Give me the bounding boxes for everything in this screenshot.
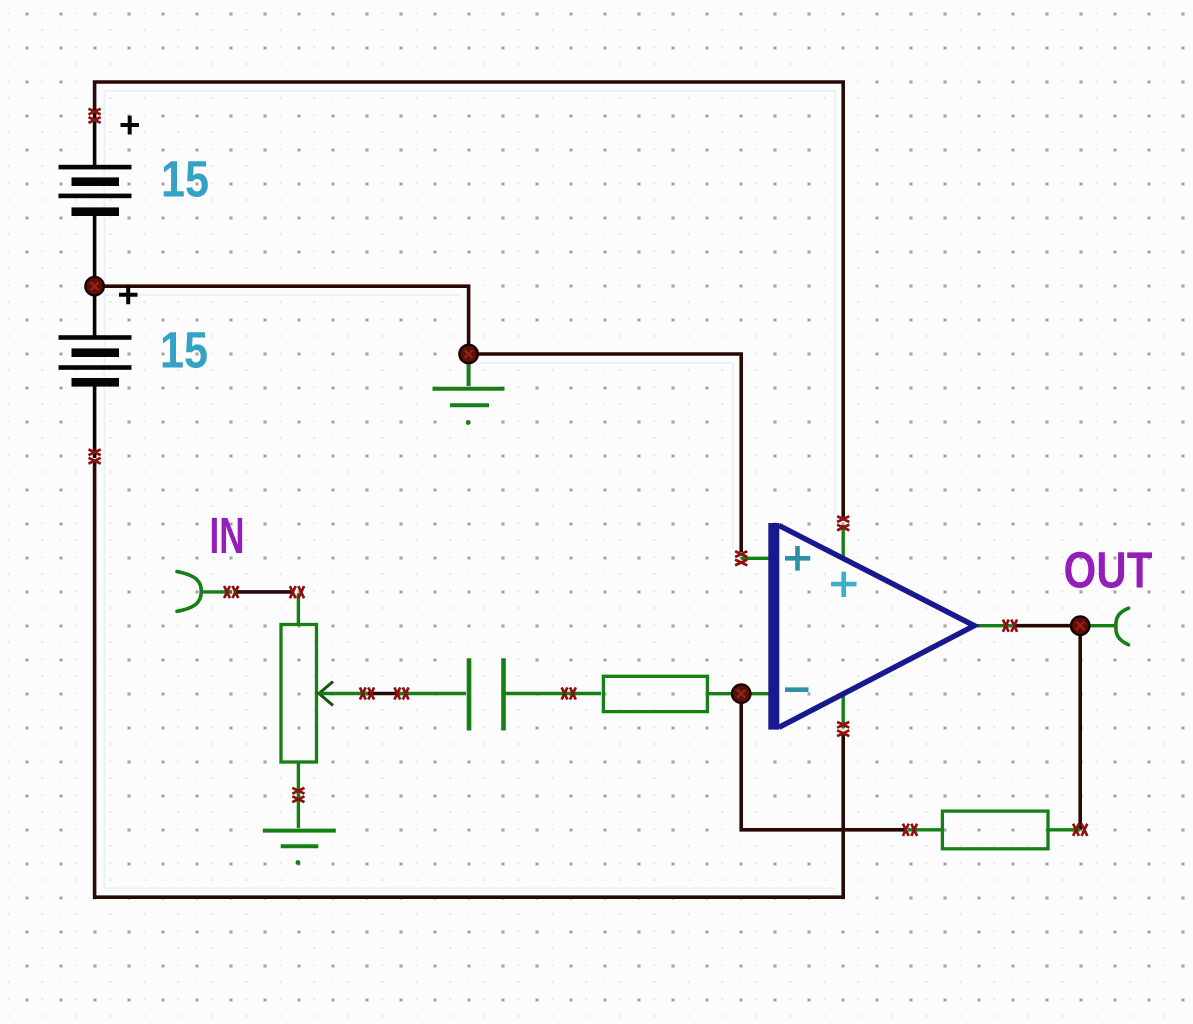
op-amp U1 V- pin — [842, 696, 845, 728]
resistor R1 body — [603, 676, 707, 711]
pin cross IN terminal — [224, 586, 238, 598]
resistor R2 right pin — [1048, 828, 1080, 831]
potentiometer P1 top pin — [297, 594, 300, 626]
battery B1 lead top — [93, 108, 97, 166]
svg-text:15: 15 — [161, 151, 209, 208]
pin cross wiper — [360, 687, 374, 699]
wire: IN terminal to potentiometer top — [234, 590, 293, 594]
wire top loop: battery top to op-amp V+ — [95, 82, 844, 518]
wire: battery midpoint to ground node — [95, 286, 469, 354]
wire bottom loop: battery bottom to op-amp V- — [95, 461, 844, 897]
capacitor C1 plates — [469, 658, 504, 730]
pin cross V+ — [837, 516, 849, 530]
battery B2 plates — [59, 335, 132, 386]
pin cross potentiometer bottom — [292, 788, 304, 802]
junction node ground tap — [459, 345, 477, 363]
wire: R2 right to OUT node — [1078, 626, 1082, 830]
pin cross R2 left — [903, 824, 917, 836]
pin cross capacitor right — [562, 687, 576, 699]
junction node output — [1071, 617, 1089, 635]
svg-text:OUT: OUT — [1064, 542, 1153, 599]
wire: op-amp output to OUT node — [1014, 624, 1080, 628]
op-amp U1 plus input mark — [785, 546, 810, 571]
op-amp U1 minus input mark — [785, 687, 809, 692]
potentiometer P1 body — [281, 625, 317, 763]
battery B1 plus sign — [121, 116, 140, 135]
wire: wiper to capacitor — [366, 692, 401, 696]
op-amp U1 V+ pin — [842, 525, 845, 560]
wire: feedback from minus node down and right to resistor R2 — [741, 700, 906, 830]
battery B2 lead bottom — [93, 387, 97, 459]
potentiometer P1 bottom pin — [297, 762, 300, 828]
resistor R2 (feedback) left pin — [908, 828, 943, 831]
resistor R2 body — [942, 811, 1048, 849]
wire: ground node to op-amp plus input — [469, 354, 742, 552]
ground GND2 (below potentiometer) — [263, 831, 336, 847]
IN terminal — [177, 572, 201, 612]
resistor R1 right pin — [708, 692, 771, 695]
svg-text:15: 15 — [160, 322, 208, 379]
battery B2 plus sign — [119, 285, 138, 304]
ground GND1 (supply midpoint) — [433, 360, 505, 405]
potentiometer P1 wiper pin — [319, 692, 368, 695]
pin cross capacitor left — [394, 687, 408, 699]
capacitor C1 right pin — [504, 692, 602, 695]
op-amp U1 triangle edges — [779, 526, 974, 728]
svg-text:IN: IN — [210, 507, 245, 564]
pin cross R2 right — [1073, 824, 1087, 836]
pin cross battery B1 top — [89, 109, 101, 123]
pin cross plus input — [735, 551, 747, 565]
junction node battery midpoint — [85, 277, 103, 295]
battery B1 plates — [59, 165, 132, 216]
battery B2 lead top — [93, 286, 97, 336]
OUT terminal pin — [1080, 624, 1117, 627]
op-amp U1 output pin — [972, 624, 1012, 627]
pin cross battery B2 bottom — [89, 449, 101, 463]
junction node minus input — [732, 685, 750, 703]
battery B1 lead bottom — [93, 216, 97, 286]
OUT terminal — [1116, 608, 1129, 645]
IN terminal pin — [201, 590, 233, 593]
pin cross potentiometer top — [290, 586, 304, 598]
potentiometer P1 wiper arrow — [319, 682, 333, 706]
pin cross output — [1003, 620, 1017, 632]
op-amp U1 body bar — [768, 523, 779, 730]
pin cross V- — [837, 722, 849, 736]
capacitor C1 left pin — [399, 692, 466, 695]
op-amp U1 V+ plus mark — [831, 572, 857, 597]
ghost echo lines (scan artifact) — [104, 91, 836, 889]
op-amp U1 plus input pin — [741, 557, 770, 560]
